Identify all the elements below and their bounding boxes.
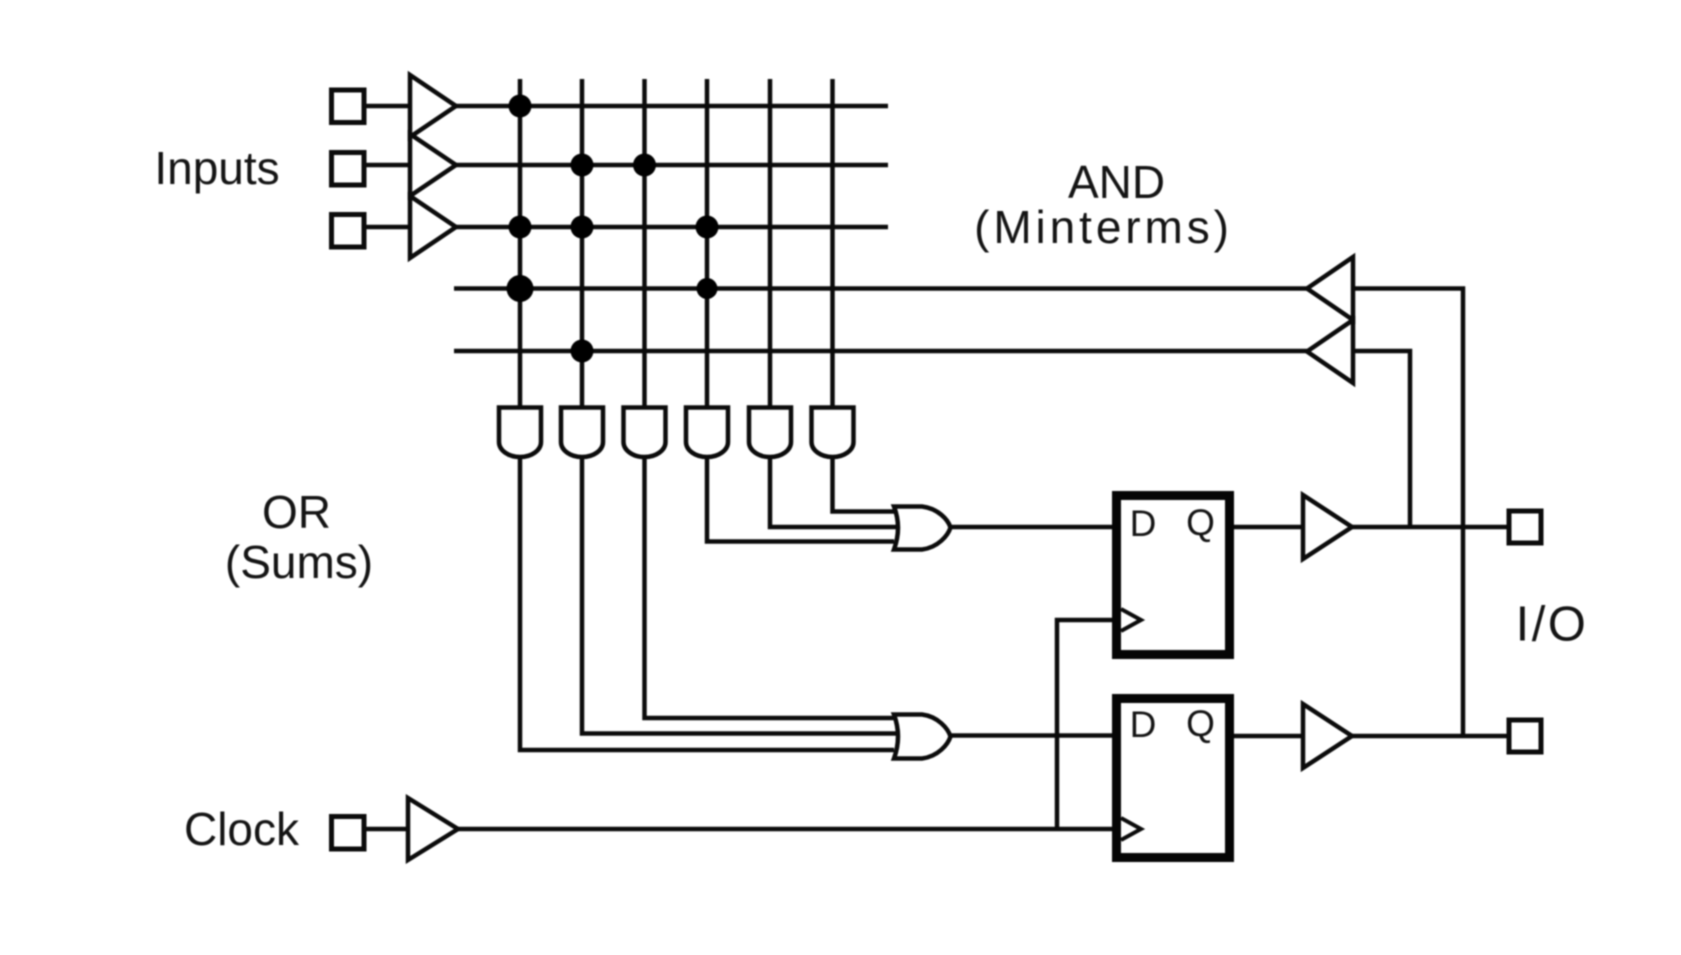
svg-text:Q: Q <box>1186 502 1215 543</box>
svg-text:Inputs: Inputs <box>154 142 279 194</box>
svg-text:D: D <box>1130 503 1157 544</box>
svg-text:(Sums): (Sums) <box>225 536 373 588</box>
svg-text:OR: OR <box>262 486 331 538</box>
svg-text:D: D <box>1130 704 1157 745</box>
svg-text:Clock: Clock <box>184 803 300 855</box>
svg-text:I/O: I/O <box>1516 598 1589 652</box>
svg-text:(Minterms): (Minterms) <box>974 201 1233 253</box>
svg-text:Q: Q <box>1186 703 1215 744</box>
